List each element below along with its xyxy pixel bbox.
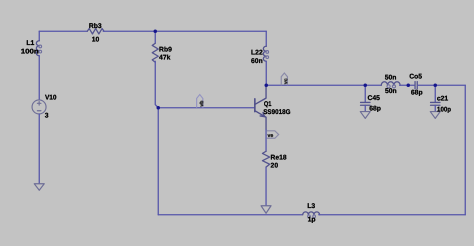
wire L1 top stub <box>38 31 40 41</box>
svg-text:3: 3 <box>45 112 49 119</box>
capacitor Co5 <box>415 82 417 89</box>
port flag vc <box>281 73 289 85</box>
node c21 junction <box>434 84 438 88</box>
wire L22 top corner <box>265 31 267 46</box>
svg-text:SS9018G: SS9018G <box>263 109 290 116</box>
resistor Re18 <box>262 151 269 167</box>
port flag vb <box>197 95 205 108</box>
svg-text:Rb9: Rb9 <box>159 47 172 54</box>
svg-text:60n: 60n <box>251 58 263 65</box>
node vb junction <box>157 106 161 110</box>
wire vc node to C45 node <box>266 84 365 86</box>
svg-text:L1: L1 <box>26 40 34 47</box>
port flag ve <box>266 131 278 139</box>
wire Rb9 to vb node <box>155 61 158 108</box>
transistor Q1 <box>255 86 266 130</box>
svg-text:50n: 50n <box>385 88 397 95</box>
ground (left) <box>34 184 44 191</box>
wire top-left from L1 top to Rb3 <box>39 30 87 32</box>
svg-text:68p: 68p <box>369 105 381 112</box>
svg-text:C45: C45 <box>367 95 380 102</box>
svg-text:20: 20 <box>271 162 279 169</box>
inductor L22 <box>263 46 268 61</box>
svg-text:10: 10 <box>92 36 100 43</box>
svg-text:vc: vc <box>283 78 289 84</box>
svg-text:c21: c21 <box>437 96 449 103</box>
resistor Rb3 <box>87 29 104 34</box>
svg-text:50n: 50n <box>385 75 397 82</box>
wire emitter to Re18 <box>265 130 267 152</box>
wire C45 to ground <box>364 105 366 111</box>
wire bottom rail right of L3 <box>319 214 466 216</box>
svg-text:Rb3: Rb3 <box>89 23 102 30</box>
svg-text:Co5: Co5 <box>409 74 422 81</box>
svg-text:L3: L3 <box>307 203 315 210</box>
svg-text:68p: 68p <box>411 89 423 96</box>
wire bottom rail left of L3 <box>158 214 302 216</box>
wire Rb9 top stub <box>154 31 156 43</box>
node vc junction <box>265 84 269 88</box>
wire Re18 to ground <box>265 167 267 205</box>
svg-text:Re18: Re18 <box>271 154 287 161</box>
wire C45 node to 50n coil <box>365 84 381 86</box>
ground (Re18) <box>261 206 271 214</box>
wire c21 to ground <box>434 105 436 111</box>
svg-text:L22: L22 <box>251 49 263 56</box>
svg-text:100p: 100p <box>437 106 451 113</box>
svg-text:vb: vb <box>199 101 205 107</box>
wire Rb3 to L22 corner <box>103 30 266 32</box>
wire L22 to vc node <box>265 61 267 85</box>
capacitor C45 <box>361 102 370 105</box>
svg-text:V10: V10 <box>45 95 57 102</box>
wire 50n coil to Co5 <box>400 84 415 86</box>
node Rb3/Rb9 junction <box>154 30 158 34</box>
node C45 junction <box>364 84 368 88</box>
wire base (vb node to Q1 base) <box>158 107 254 109</box>
wire vb node down to bottom rail <box>157 108 159 215</box>
svg-text:47k: 47k <box>159 55 171 62</box>
inductor L1 <box>36 41 41 56</box>
node junction dots <box>154 30 438 110</box>
svg-text:ve: ve <box>267 133 273 139</box>
inductor 50n <box>381 82 400 88</box>
inductor L3 <box>303 212 320 218</box>
resistor Rb9 <box>152 43 158 62</box>
ground (C45) <box>360 112 370 119</box>
wire c21 branch down <box>434 85 436 102</box>
svg-text:1p: 1p <box>308 216 316 223</box>
voltage source V10 <box>32 100 46 114</box>
wire right rail <box>464 85 466 215</box>
svg-text:Q1: Q1 <box>264 101 272 108</box>
ground (c21) <box>430 112 440 119</box>
svg-text:100n: 100n <box>21 48 39 55</box>
capacitor c21 <box>431 102 440 105</box>
wire C45 branch down <box>364 85 366 102</box>
wire V10 to ground <box>38 114 40 183</box>
node 50n/Co5 junction <box>407 84 411 88</box>
wire Co5 to c21 node <box>418 84 466 86</box>
wire L1 to V10 <box>38 56 40 100</box>
